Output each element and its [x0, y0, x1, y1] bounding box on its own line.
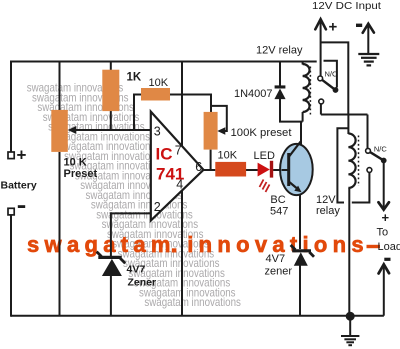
wire 1K drop top [110, 62, 112, 71]
wire zener1 top lead [110, 212, 112, 256]
wiper arrow of 10K preset [68, 126, 77, 134]
svg-text:Preset: Preset [64, 168, 98, 180]
wire relay2 bypass right part [352, 173, 370, 203]
wire relay1 branch to bar [321, 42, 349, 114]
wire relay2 contact top drop [367, 115, 369, 149]
svg-text:2: 2 [154, 200, 161, 214]
watermark red trailing dash [367, 245, 381, 248]
svg-text:10 K: 10 K [64, 157, 87, 169]
wire relay2 pole to load arrow [383, 161, 385, 209]
svg-text:10K: 10K [218, 149, 238, 161]
zener diode 4V7 right [292, 249, 311, 252]
wire 1N4007 top lead [279, 62, 281, 87]
wire supply line pins 7 and 4 [181, 62, 183, 316]
watermark gray rows [27, 81, 241, 310]
wire left rail upper [10, 61, 12, 153]
svg-text:547: 547 [270, 205, 288, 217]
wire relay2 bypass [337, 128, 348, 202]
minus sign load [384, 258, 390, 261]
relay1 armature dotted line [309, 67, 311, 116]
relay2 contact dot [381, 158, 387, 164]
wire pin 2 input [111, 212, 151, 214]
relay1 coil L1 [303, 64, 310, 112]
wire preset drop top [59, 62, 61, 111]
svg-text:12V: 12V [316, 194, 336, 206]
svg-text:4V7: 4V7 [127, 263, 146, 275]
wire pin 3 input [76, 129, 151, 131]
transistor emitter lead [289, 182, 300, 191]
transistor base bar [287, 153, 290, 186]
wire zener1 bottom lead [110, 276, 112, 316]
resistor 10K preset body [51, 110, 68, 152]
relay1 contact dot [333, 87, 339, 93]
svg-text:Load: Load [378, 241, 400, 253]
transistor emitter arrowhead [294, 186, 301, 193]
relay2 lever [368, 151, 384, 161]
svg-text:7: 7 [175, 144, 182, 158]
relay1 lower throw circle [319, 99, 324, 104]
svg-text:swagatam innovations: swagatam innovations [144, 295, 241, 309]
wire preset drop bottom [59, 152, 61, 316]
wire LED to base [273, 169, 281, 171]
battery minus sign [18, 205, 25, 208]
wire relay1 coil top elbow [302, 62, 304, 65]
LED D1 [258, 163, 270, 177]
wire bottom rail [11, 315, 384, 317]
svg-text:6: 6 [195, 160, 202, 174]
svg-text:10K: 10K [149, 77, 169, 89]
relay2 armature dotted line [358, 136, 360, 187]
svg-text:Battery: Battery [1, 180, 37, 192]
battery negative terminal [8, 208, 14, 215]
svg-text:zener: zener [265, 266, 293, 278]
relay2 coil L2 [348, 134, 355, 188]
svg-text:swagatam innovations: swagatam innovations [27, 232, 369, 257]
wire left rail lower [10, 215, 12, 317]
svg-text:BC: BC [270, 194, 285, 206]
wire pin 6 output [203, 169, 215, 171]
transistor collector lead [289, 142, 301, 158]
resistor 10K output body [215, 162, 246, 177]
wire 1N4007 bottom lead [280, 99, 303, 122]
svg-text:1N4007: 1N4007 [234, 88, 273, 100]
svg-text:+: + [17, 146, 27, 165]
resistor 100K preset body [204, 112, 218, 150]
svg-text:100K preset: 100K preset [231, 127, 292, 139]
resistor 1K body [102, 70, 119, 111]
svg-text:3: 3 [154, 124, 161, 138]
svg-text:relay: relay [316, 205, 340, 217]
svg-text:+: + [382, 210, 390, 225]
resistor 10K feedback body [141, 88, 170, 101]
wire relay1 coil bottom to collector [301, 112, 303, 146]
wire feedback left elbow [134, 95, 141, 131]
junction node bottom [346, 312, 355, 321]
wire horizontal bar [321, 114, 368, 116]
watermark red period [172, 248, 177, 252]
12V DC input plus arrow [320, 20, 322, 77]
svg-text:N/C: N/C [325, 70, 339, 79]
zener diode 4V7 left [98, 256, 121, 259]
wire 100K preset bottom to output node [210, 150, 212, 170]
svg-text:IC: IC [156, 145, 173, 164]
wire 10K out to LED [246, 169, 258, 171]
wire feedback right to 100K preset top [170, 95, 211, 113]
wire 100K preset wiper loop [211, 106, 227, 131]
transistor base lead [282, 169, 289, 171]
diode 1N4007 [275, 85, 286, 88]
relay2 pole circle [366, 148, 371, 153]
transistor BC547 Q1 [280, 144, 313, 195]
wire emitter to zener2 [299, 195, 301, 249]
wire relay2 coil bottom drop [348, 188, 350, 313]
ground top right [367, 25, 369, 54]
ground bottom [349, 316, 351, 335]
svg-text:To: To [377, 227, 389, 239]
wire relay2 coil top drop [347, 115, 349, 135]
battery positive terminal [8, 152, 14, 159]
relay1 pole circle [318, 76, 323, 81]
wire relay1 NC throw lead [324, 61, 337, 88]
op-amp IC 741 [151, 112, 204, 221]
svg-text:N/C: N/C [374, 145, 388, 154]
svg-text:+: + [329, 19, 338, 36]
relay2 lower throw circle [367, 168, 372, 173]
wire relay1 lower throw elbow [320, 104, 322, 115]
relay1 lever [320, 78, 335, 90]
minus sign dc input [356, 24, 362, 27]
wire zener2 bottom lead [299, 265, 301, 316]
svg-text:LED: LED [254, 150, 275, 162]
To Load minus arrow [383, 265, 385, 316]
LED rays [260, 180, 270, 193]
svg-text:4: 4 [176, 177, 183, 191]
wire top rail [11, 61, 317, 63]
svg-text:12V relay: 12V relay [256, 45, 303, 57]
svg-text:4V7: 4V7 [266, 253, 286, 265]
wiper arrow of 100K preset [217, 127, 225, 135]
svg-text:Zener: Zener [128, 276, 157, 288]
svg-text:12V DC Input: 12V DC Input [312, 0, 381, 12]
svg-text:1K: 1K [127, 72, 142, 84]
wire 1K bottom to pin3 node [110, 111, 112, 130]
